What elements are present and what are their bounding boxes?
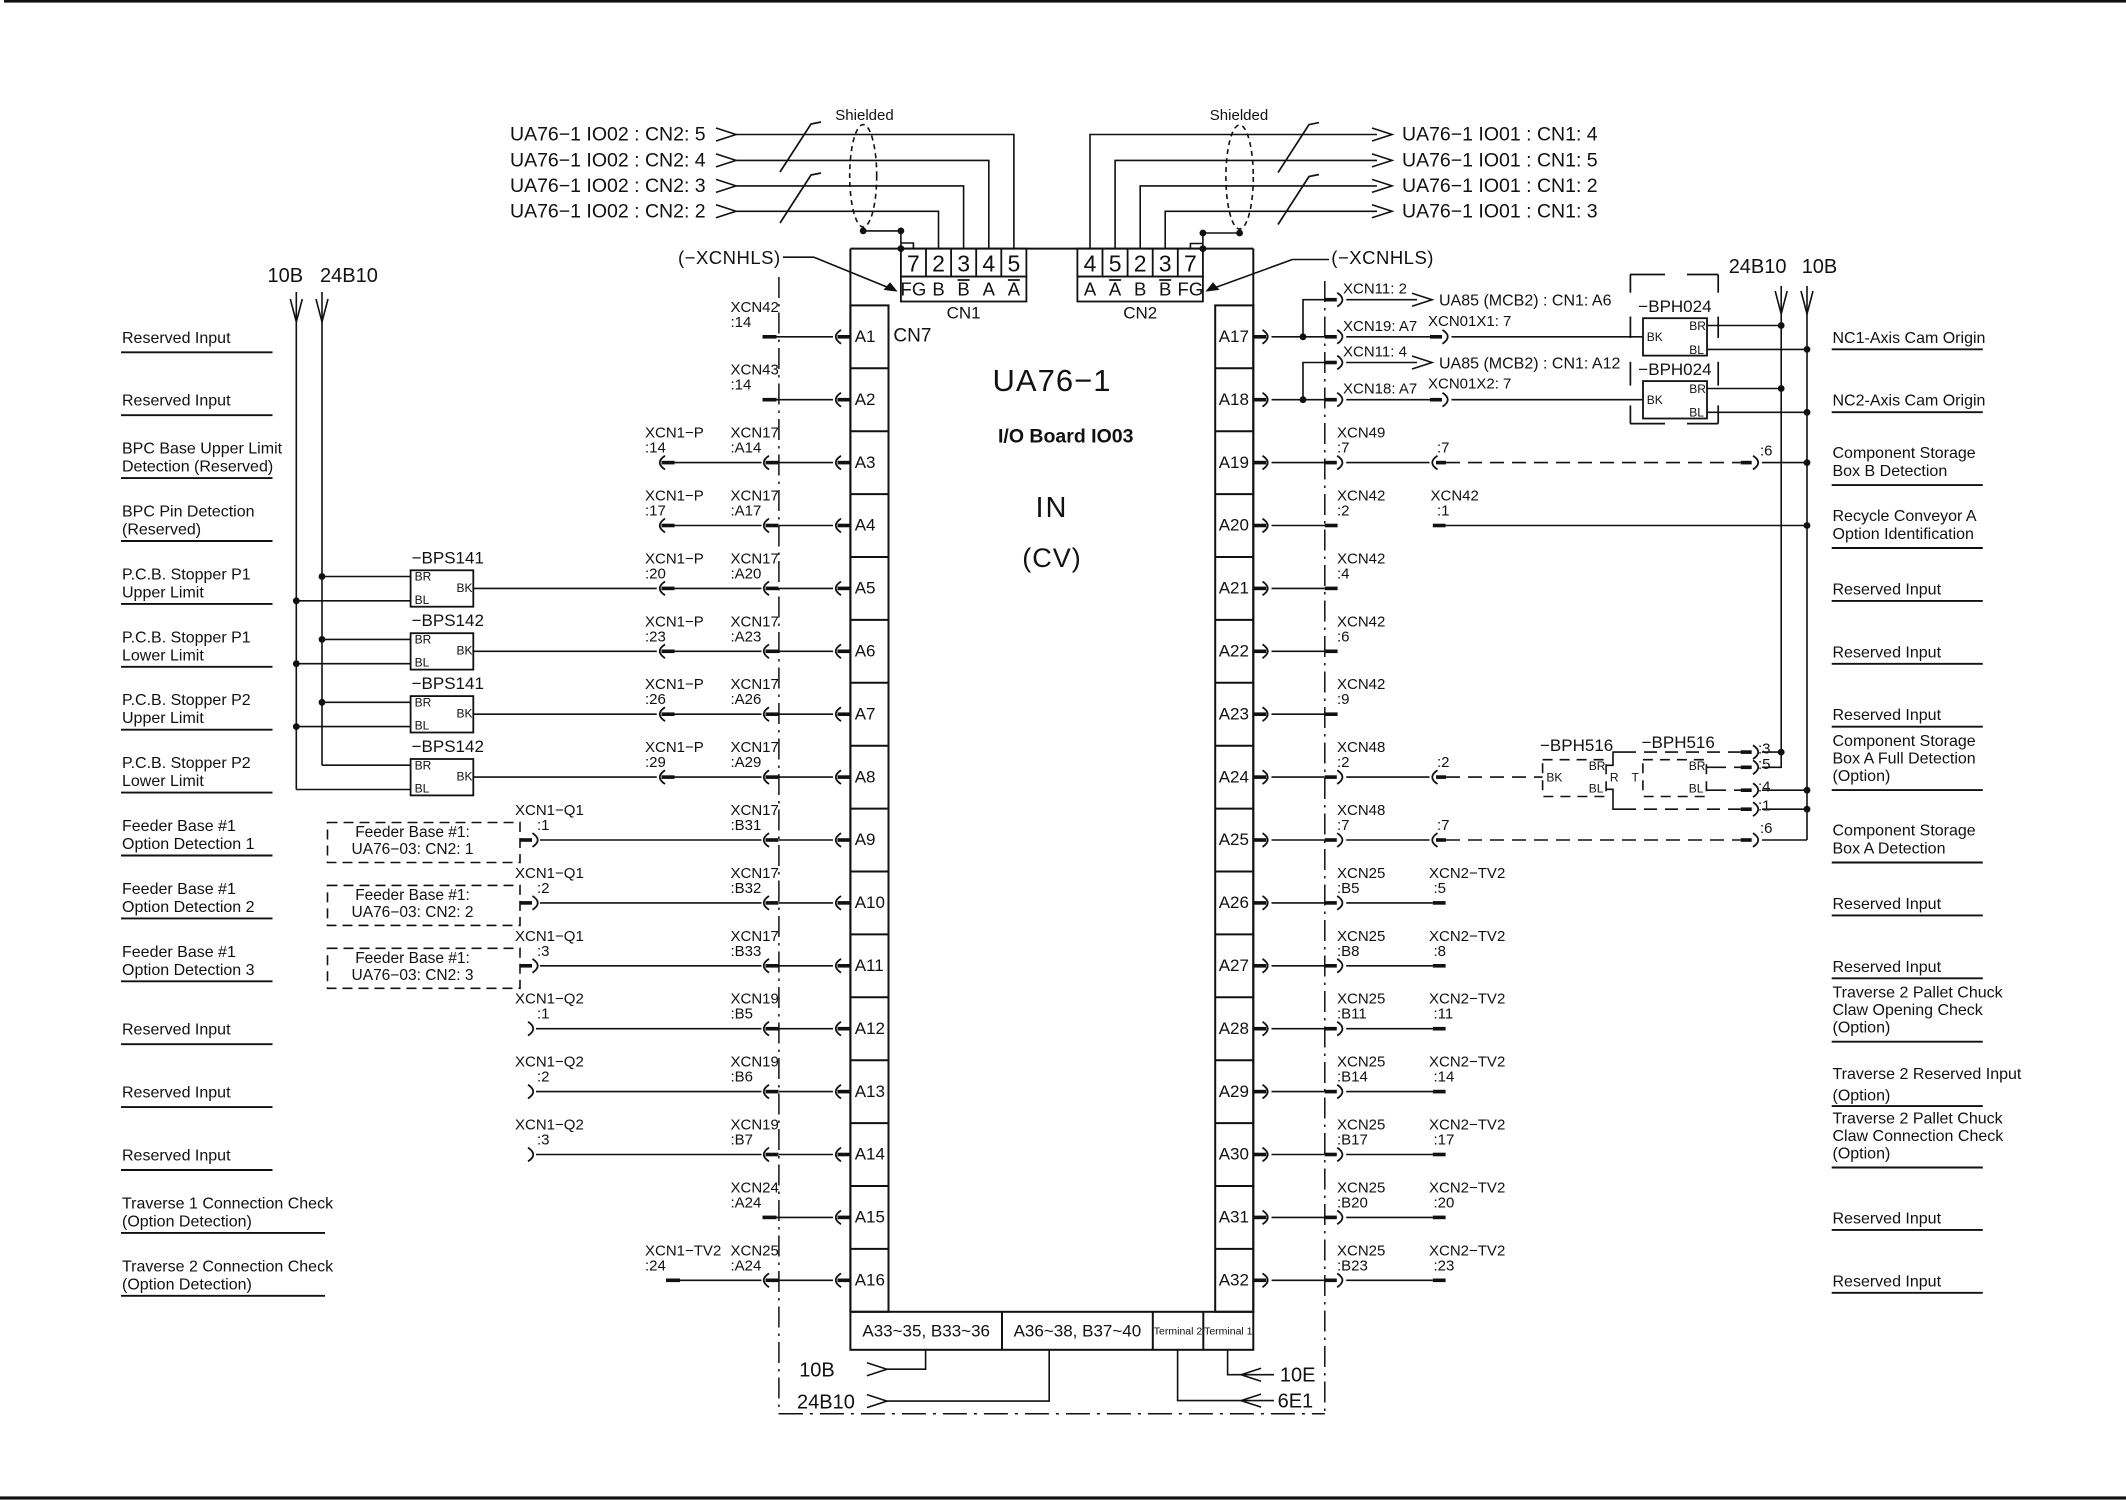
wire A6 (sensor BK lead) (473, 650, 657, 652)
connector contact XCN1−P:23 (662, 650, 675, 654)
svg-text:(Option): (Option) (1833, 768, 1891, 785)
wire A6 (harness) (675, 650, 762, 652)
svg-text:5: 5 (1008, 251, 1021, 277)
wire Terminal 2 to 6E1 (1178, 1350, 1274, 1407)
wire BPH516#2 BL to :4 contact (1706, 789, 1713, 791)
arrow head (716, 154, 736, 167)
svg-text:A13: A13 (855, 1082, 885, 1101)
wire A13 (harness) (536, 1091, 762, 1093)
wire A10 (cable boundary to pin) (779, 902, 833, 904)
wire A16 (harness) (680, 1279, 762, 1281)
wire A20 to 10B line (1446, 525, 1807, 527)
connector contact XCN25:B5 (1325, 901, 1337, 905)
svg-text:UA76−1 IO01 : CN1: 4: UA76−1 IO01 : CN1: 4 (1402, 124, 1598, 146)
svg-text::1: :1 (537, 817, 550, 834)
wire A11 (cable boundary to pin) (779, 965, 833, 967)
wire A26 (1272, 902, 1325, 904)
I/O board UA76-1 outline (850, 249, 1253, 1312)
pin A6 connector contact (838, 650, 851, 654)
wire 10B to terminal block (867, 1350, 926, 1376)
svg-text:A15: A15 (855, 1208, 885, 1227)
svg-text:I/O Board IO03: I/O Board IO03 (998, 426, 1134, 448)
svg-text:−BPH024: −BPH024 (1638, 297, 1711, 316)
junction dot (860, 228, 867, 235)
wire CN2 pin 3 to IO01 row (1165, 211, 1377, 248)
svg-text:BL: BL (1589, 782, 1604, 796)
wire :3 to 24B10 end (1762, 751, 1781, 753)
contact XCN42:6 (1325, 650, 1338, 654)
svg-text:Detection (Reserved): Detection (Reserved) (122, 459, 273, 476)
svg-text::2: :2 (537, 1069, 550, 1086)
svg-text:UA76−1 IO01 : CN1: 5: UA76−1 IO01 : CN1: 5 (1402, 150, 1598, 172)
wire XCN11:2 to UA85 (1346, 299, 1417, 301)
junction dot BR (319, 573, 326, 580)
junction dot BL (293, 597, 300, 604)
svg-text:6E1: 6E1 (1278, 1391, 1314, 1413)
svg-text:−BPH516: −BPH516 (1540, 736, 1613, 755)
pin A11 connector contact (838, 964, 851, 968)
svg-text:BK: BK (457, 581, 473, 595)
proximity sensor −BPS141 (A5) (411, 570, 474, 606)
connector contact :3 (1741, 750, 1752, 754)
bottom border bar (0, 1496, 2126, 1499)
connector contact XCN11:2 (1325, 298, 1337, 302)
connector contact :6 (1741, 838, 1752, 842)
svg-text::7: :7 (1437, 440, 1450, 457)
svg-text::7: :7 (1337, 440, 1350, 457)
svg-text::14: :14 (731, 377, 752, 394)
svg-text::B20: :B20 (1337, 1194, 1368, 1211)
svg-text:Feeder Base #1: Feeder Base #1 (122, 944, 236, 961)
svg-text:Shielded: Shielded (835, 107, 893, 124)
svg-text:P.C.B. Stopper P2: P.C.B. Stopper P2 (122, 692, 251, 709)
wire A32 (1272, 1279, 1325, 1281)
wire A25 to 10B line end (1762, 839, 1807, 841)
wire BPH024 BL to 10B (1707, 348, 1807, 350)
svg-text:A21: A21 (1219, 579, 1249, 598)
cable boundary chain line (bottom) (779, 1413, 1325, 1415)
svg-text:BR: BR (415, 758, 432, 772)
svg-text:Feeder Base #1:: Feeder Base #1: (355, 950, 470, 967)
svg-text:2: 2 (1134, 251, 1147, 277)
svg-text::23: :23 (645, 628, 666, 645)
wire A27 (1272, 965, 1325, 967)
wire −BPS142 BR to 24B10 (322, 764, 411, 766)
pin A17 connector contact (1253, 335, 1266, 339)
shield drain wire (CN1) (863, 227, 913, 249)
connector contact XCN48:2 (1325, 775, 1337, 779)
wire CN1 pin 3 to IO02 row (736, 186, 964, 249)
cable boundary chain line (right) (1324, 281, 1326, 1414)
svg-text::2: :2 (1437, 754, 1450, 771)
pin A7 connector contact (838, 712, 851, 716)
svg-text:−BPS142: −BPS142 (412, 611, 484, 630)
wire :1 to 10B line (1762, 808, 1807, 810)
branch wire to XCN11:2 (1303, 300, 1325, 337)
photo sensor −BPH516 #1 (transmitter) (1543, 760, 1607, 797)
svg-text:BL: BL (415, 656, 430, 670)
wire A30 (boundary to XCN2-TV2) (1346, 1154, 1433, 1156)
contact XCN42:9 (1325, 712, 1338, 716)
pin A10 connector contact (838, 901, 851, 905)
arrow head (1372, 154, 1392, 167)
wire A25 (boundary to option connector) (1346, 839, 1429, 841)
svg-text::17: :17 (1434, 1132, 1455, 1149)
svg-text:A3: A3 (855, 453, 876, 472)
svg-text:Traverse 1 Connection Check: Traverse 1 Connection Check (122, 1195, 334, 1212)
svg-text:BR: BR (1689, 759, 1706, 773)
wire A30 (1272, 1154, 1325, 1156)
wire −BPS141 BL to 10B (296, 600, 410, 602)
pin A2 connector contact (838, 398, 851, 402)
pin A4 connector contact (838, 524, 851, 528)
wire BPH024 BL to 10B (1707, 411, 1807, 413)
connector contact XCN1−Q1:2 (520, 901, 532, 905)
wire A28 (boundary to XCN2-TV2) (1346, 1028, 1433, 1030)
connector contact XCN19:B6 (766, 1090, 779, 1094)
svg-text:(−XCNHLS): (−XCNHLS) (1331, 247, 1434, 268)
wire −BPS141 BL to 10B (296, 726, 410, 728)
svg-text::2: :2 (537, 880, 550, 897)
svg-text:Upper Limit: Upper Limit (122, 584, 204, 601)
pin A27 connector contact (1253, 964, 1266, 968)
wire −BPS141 BR to 24B10 (322, 701, 411, 703)
svg-text:(Reserved): (Reserved) (122, 522, 201, 539)
svg-text:Option Detection 3: Option Detection 3 (122, 962, 255, 979)
svg-text:XCN11: 2: XCN11: 2 (1343, 281, 1407, 298)
pin A22 connector contact (1253, 650, 1266, 654)
svg-text:B: B (932, 278, 944, 299)
svg-text:Reserved Input: Reserved Input (122, 1022, 231, 1039)
svg-text:A25: A25 (1219, 830, 1249, 849)
pin A18 connector contact (1253, 398, 1266, 402)
svg-text::6: :6 (1337, 628, 1350, 645)
connector contact XCN1−Q1:1 (520, 838, 532, 842)
wire A7 (sensor BK lead) (473, 713, 657, 715)
svg-text:Lower Limit: Lower Limit (122, 647, 204, 664)
connector contact XCN19:A7 (1325, 335, 1337, 339)
svg-text:−BPH024: −BPH024 (1638, 360, 1711, 379)
svg-text:A8: A8 (855, 767, 876, 786)
wire XCN11:4 to UA85 (1346, 362, 1417, 364)
wire A27 (boundary to XCN2-TV2) (1346, 965, 1433, 967)
connector contact :1 (1741, 807, 1752, 811)
svg-text::7: :7 (1437, 817, 1450, 834)
pin A24 connector contact (1253, 775, 1266, 779)
wire :5 to 24B10 end (1762, 752, 1781, 767)
dashed option bracket around BPH024 sensors (1630, 275, 1718, 424)
wire A8 (harness) (675, 776, 762, 778)
svg-text:UA76−03: CN2: 1: UA76−03: CN2: 1 (352, 841, 474, 858)
svg-text:A1: A1 (855, 327, 876, 346)
dashed option cable A19 (1446, 462, 1741, 464)
leader arrow to CN2 FG (1207, 260, 1330, 292)
photo sensor −BPH024 #1 (1643, 318, 1707, 355)
svg-text:A22: A22 (1219, 642, 1249, 661)
arrow head (1372, 179, 1392, 192)
wire BPH024 BR to 24B10 (1707, 325, 1781, 327)
svg-text:Component Storage: Component Storage (1833, 733, 1976, 750)
junction dot A18 branch (1300, 396, 1307, 403)
svg-text:Traverse 2 Pallet Chuck: Traverse 2 Pallet Chuck (1833, 985, 2004, 1002)
svg-text::14: :14 (1434, 1069, 1455, 1086)
svg-text:B: B (1134, 278, 1146, 299)
svg-text::B33: :B33 (731, 943, 762, 960)
svg-text::6: :6 (1760, 820, 1773, 837)
wire A19 (1272, 462, 1325, 464)
connector contact XCN01X2:7 (1430, 398, 1442, 402)
contact XCN2-TV2:5 (1433, 901, 1446, 905)
arrow head (1412, 356, 1432, 369)
junction dot (1804, 346, 1811, 353)
svg-text:7: 7 (1184, 251, 1197, 277)
svg-text:BK: BK (457, 707, 473, 721)
svg-text:XCN11: 4: XCN11: 4 (1343, 343, 1407, 360)
connector contact :5 (1741, 766, 1752, 770)
svg-text:BL: BL (1689, 406, 1704, 420)
feeder base option box (328, 823, 521, 863)
svg-text:(Option): (Option) (1833, 1087, 1891, 1104)
svg-text:Component Storage: Component Storage (1833, 823, 1976, 840)
wire BPH516#2 BR to :5 contact (1706, 766, 1713, 768)
wire A29 (1272, 1091, 1325, 1093)
svg-text:Option Detection 1: Option Detection 1 (122, 836, 255, 853)
svg-text::4: :4 (1758, 779, 1771, 796)
pin A16 connector contact (838, 1279, 851, 1283)
junction dot BL (293, 723, 300, 730)
pin A9 connector contact (838, 838, 851, 842)
svg-text:UA76−03: CN2: 2: UA76−03: CN2: 2 (352, 904, 474, 921)
connector half :2 (option side) (1432, 770, 1437, 784)
contact XCN2-TV2:14 (1433, 1090, 1446, 1094)
svg-text:UA76−1 IO01 : CN1: 2: UA76−1 IO01 : CN1: 2 (1402, 175, 1598, 197)
svg-text:10B: 10B (799, 1360, 835, 1382)
svg-text::26: :26 (645, 691, 666, 708)
svg-text:P.C.B. Stopper P1: P.C.B. Stopper P1 (122, 566, 251, 583)
pin A12 connector contact (838, 1027, 851, 1031)
svg-text:BL: BL (415, 719, 430, 733)
cable slash mark (CN2 pair 1) (1278, 123, 1319, 173)
svg-text:Traverse 2 Connection Check: Traverse 2 Connection Check (122, 1258, 334, 1275)
wire A18 (boundary to XCN01X2) (1346, 399, 1430, 401)
arrow head (716, 128, 736, 141)
svg-text::20: :20 (645, 565, 666, 582)
svg-text::B23: :B23 (1337, 1257, 1368, 1274)
svg-text:4: 4 (1084, 251, 1097, 277)
svg-text:R: R (1610, 770, 1619, 784)
junction dot (1804, 806, 1811, 813)
svg-text:10E: 10E (1280, 1365, 1316, 1387)
junction dot (1200, 245, 1207, 252)
connector contact XCN19:B5 (766, 1027, 779, 1031)
svg-text:FG: FG (901, 278, 927, 299)
wire A8 (sensor BK lead) (473, 776, 657, 778)
connector contact XCN11:4 (1325, 361, 1337, 365)
connector contact XCN17:B32 (766, 901, 779, 905)
wire −BPS141 BR to 24B10 (322, 576, 411, 578)
contact XCN1−TV2:24 (666, 1279, 680, 1283)
pin A8 connector contact (838, 775, 851, 779)
connector contact XCN17:A17 (766, 524, 779, 528)
svg-text:T: T (1632, 770, 1640, 784)
svg-text:Option Detection 2: Option Detection 2 (122, 899, 255, 916)
connector contact XCN17:A20 (766, 587, 779, 591)
svg-text:XCN19: A7: XCN19: A7 (1343, 318, 1417, 335)
wire −BPS142 BR to 24B10 (322, 638, 411, 640)
svg-text:A29: A29 (1219, 1082, 1249, 1101)
svg-text:Claw Connection Check: Claw Connection Check (1833, 1128, 2005, 1145)
svg-text::A14: :A14 (731, 440, 762, 457)
svg-text:XCN18: A7: XCN18: A7 (1343, 381, 1417, 398)
svg-text:A32: A32 (1219, 1271, 1249, 1290)
svg-text::1: :1 (1437, 503, 1450, 520)
wire A24 (boundary to option connector) (1346, 776, 1429, 778)
svg-text::B6: :B6 (731, 1069, 754, 1086)
contact XCN2-TV2:8 (1433, 964, 1446, 968)
junction dot (1804, 409, 1811, 416)
feeder base option box (328, 885, 521, 925)
junction dot BR (319, 636, 326, 643)
svg-text:(CV): (CV) (1022, 543, 1082, 573)
wire A19 (boundary to option connector) (1346, 462, 1429, 464)
svg-text::24: :24 (645, 1257, 666, 1274)
svg-text::20: :20 (1434, 1194, 1455, 1211)
svg-text:UA76−1 IO01 : CN1: 3: UA76−1 IO01 : CN1: 3 (1402, 201, 1598, 223)
svg-text:CN2: CN2 (1123, 304, 1157, 323)
wire A31 (1272, 1216, 1325, 1218)
contact XCN42:2 (1325, 524, 1338, 528)
svg-text:A19: A19 (1219, 453, 1249, 472)
svg-text::B17: :B17 (1337, 1132, 1368, 1149)
svg-text:3: 3 (1159, 251, 1172, 277)
wire A19 to 10B line (1762, 462, 1807, 464)
connector contact XCN25:B8 (1325, 964, 1337, 968)
branch wire to XCN11:4 (1303, 363, 1325, 400)
connector CN2 cells (1077, 249, 1203, 302)
svg-text::1: :1 (537, 1006, 550, 1023)
svg-text:Lower Limit: Lower Limit (122, 773, 204, 790)
svg-text:CN1: CN1 (947, 304, 981, 323)
pin A28 connector contact (1253, 1027, 1266, 1031)
connector contact XCN1−Q1:3 (520, 964, 532, 968)
svg-text:Feeder Base #1: Feeder Base #1 (122, 881, 236, 898)
shield drain wire (CN2) (1190, 229, 1239, 249)
wire A28 (1272, 1028, 1325, 1030)
connector contact XCN1−P:20 (662, 587, 675, 591)
svg-text::B14: :B14 (1337, 1069, 1368, 1086)
wire A16 (cable boundary to pin) (779, 1279, 833, 1281)
connector half XCN1−Q2:3 (528, 1148, 533, 1162)
connector contact XCN18:A7 (1325, 398, 1337, 402)
svg-text:BL: BL (1689, 343, 1704, 357)
proximity sensor −BPS142 (A8) (411, 759, 474, 795)
connector CN1 cells (901, 249, 1027, 302)
svg-text:10B: 10B (1802, 256, 1838, 278)
svg-text:24B10: 24B10 (320, 265, 378, 287)
right pin column boxes A17-A32 (1215, 305, 1253, 1311)
connector contact XCN19:B7 (766, 1153, 779, 1157)
svg-text:A17: A17 (1219, 327, 1249, 346)
cable slash mark (CN1 pair 2) (780, 173, 821, 223)
dashed option cable A24 (1446, 776, 1543, 778)
proximity sensor −BPS141 (A7) (411, 696, 474, 732)
svg-text:Traverse 2 Pallet Chuck: Traverse 2 Pallet Chuck (1833, 1111, 2004, 1128)
contact XCN2-TV2:23 (1433, 1279, 1446, 1283)
svg-text:UA76−1 IO02 : CN2: 5: UA76−1 IO02 : CN2: 5 (510, 124, 706, 146)
svg-text:A7: A7 (855, 704, 876, 723)
svg-text:Reserved Input: Reserved Input (122, 1148, 231, 1165)
svg-text::11: :11 (1434, 1006, 1454, 1023)
wire CN2 pin 4 to IO01 row (1090, 135, 1377, 249)
svg-text::29: :29 (645, 754, 666, 771)
connector contact XCN1−P:17 (662, 524, 675, 528)
wire A3 (harness) (675, 462, 762, 464)
wire BPH516#1 BR elbow to :3 rail (1606, 752, 1623, 765)
wire A13 (cable boundary to pin) (779, 1091, 833, 1093)
wire A18 to BPH024 BK (1452, 399, 1644, 401)
wire BPH024 BR to 24B10 (1707, 388, 1781, 390)
svg-text:24B10: 24B10 (1729, 256, 1787, 278)
svg-text::A26: :A26 (731, 691, 762, 708)
wire A15 (777, 1216, 834, 1218)
wire A9 (harness) (540, 839, 762, 841)
svg-text:A28: A28 (1219, 1019, 1249, 1038)
wire A23 (1272, 713, 1325, 715)
junction dot A17 branch (1300, 333, 1307, 340)
contact XCN43:14 at cable boundary (763, 398, 777, 402)
wire A5 (sensor BK lead) (473, 587, 657, 589)
svg-text:−BPS141: −BPS141 (412, 548, 484, 567)
arrow head (716, 205, 736, 218)
wire CN1 pin 2 to IO02 row (736, 211, 939, 248)
svg-text:A26: A26 (1219, 893, 1249, 912)
wire A32 (boundary to XCN2-TV2) (1346, 1279, 1433, 1281)
arrow head (1412, 293, 1432, 306)
pin A26 connector contact (1253, 901, 1266, 905)
wire A7 (cable boundary to pin) (779, 713, 833, 715)
svg-text::B31: :B31 (731, 817, 762, 834)
svg-text:−BPS142: −BPS142 (412, 737, 484, 756)
svg-text:A12: A12 (855, 1019, 885, 1038)
connector contact XCN25:A24 (766, 1279, 779, 1283)
shield ellipse (CN1) (850, 125, 877, 227)
pin A32 connector contact (1253, 1279, 1266, 1283)
svg-text::3: :3 (537, 1132, 550, 1149)
wire A4 (cable boundary to pin) (779, 525, 833, 527)
svg-text::23: :23 (1434, 1257, 1455, 1274)
svg-text::B5: :B5 (731, 1006, 754, 1023)
svg-text:A6: A6 (855, 642, 876, 661)
connector contact :4 (1741, 788, 1752, 792)
svg-text:BR: BR (1689, 319, 1706, 333)
svg-text:24B10: 24B10 (797, 1392, 855, 1414)
svg-text:Box A Detection: Box A Detection (1833, 841, 1946, 858)
svg-text::A23: :A23 (731, 628, 762, 645)
wire A17 (1272, 336, 1325, 338)
svg-text:Component Storage: Component Storage (1833, 445, 1976, 462)
svg-text:A30: A30 (1219, 1145, 1249, 1164)
svg-text:Option Identification: Option Identification (1833, 526, 1974, 543)
wire A18 (1272, 399, 1325, 401)
svg-text:Shielded: Shielded (1210, 107, 1268, 124)
connector contact XCN17:A29 (766, 775, 779, 779)
svg-text:BK: BK (1647, 330, 1663, 344)
wire CN2 pin 2 to IO01 row (1140, 186, 1377, 249)
wire A12 (harness) (536, 1028, 762, 1030)
cable boundary chain line (left) (778, 277, 780, 1414)
svg-text:XCN01X1: 7: XCN01X1: 7 (1428, 313, 1511, 330)
pin A31 connector contact (1253, 1216, 1266, 1220)
